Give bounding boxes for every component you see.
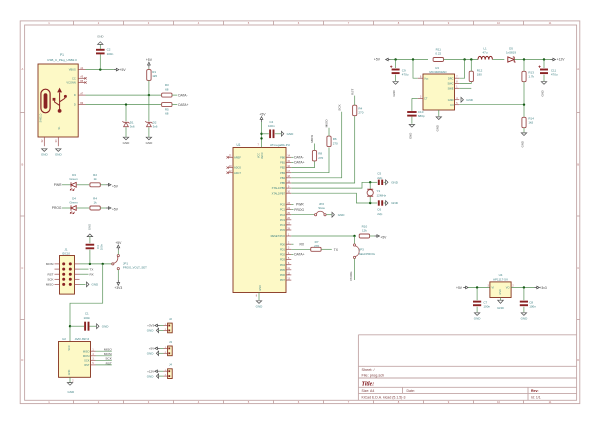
svg-text:VI: VI	[492, 286, 495, 290]
svg-text:GND: GND	[259, 285, 262, 291]
svg-text:100n: 100n	[99, 243, 103, 250]
svg-text:+5V: +5V	[112, 208, 119, 212]
svg-text:+3V3: +3V3	[147, 324, 154, 328]
svg-text:+12V: +12V	[147, 369, 154, 373]
svg-text:RESET/PC6: RESET/PC6	[271, 234, 286, 238]
svg-text:RX: RX	[300, 242, 305, 246]
svg-text:GND: GND	[499, 289, 502, 295]
svg-text:C: C	[577, 266, 579, 270]
svg-text:DATA-: DATA-	[178, 93, 187, 97]
svg-text:PB0: PB0	[280, 155, 285, 159]
svg-text:PD7: PD7	[280, 278, 286, 282]
svg-text:ADC7: ADC7	[234, 171, 241, 175]
svg-text:B: B	[577, 162, 579, 166]
svg-text:Id: 1/1: Id: 1/1	[531, 395, 541, 399]
svg-text:GND: GND	[123, 141, 131, 145]
svg-text:USB_C_Plug_USB2.0: USB_C_Plug_USB2.0	[47, 58, 77, 62]
svg-text:KiCad E.D.A. kicad (5.1.5)-3: KiCad E.D.A. kicad (5.1.5)-3	[362, 395, 406, 399]
svg-text:ADC6: ADC6	[234, 166, 241, 170]
svg-text:3v6: 3v6	[153, 125, 158, 129]
svg-text:VCONN: VCONN	[66, 81, 75, 85]
svg-text:J3: J3	[169, 340, 172, 344]
svg-text:11: 11	[549, 21, 552, 25]
svg-text:D: D	[74, 93, 76, 97]
svg-text:100n: 100n	[268, 124, 275, 128]
svg-text:GND: GND	[147, 374, 155, 378]
svg-text:100n: 100n	[483, 305, 490, 309]
svg-text:Green: Green	[69, 200, 78, 204]
svg-text:PB1: PB1	[280, 161, 285, 165]
svg-text:PC0: PC0	[280, 203, 286, 207]
svg-text:VO: VO	[506, 286, 510, 290]
svg-text:PD5: PD5	[280, 268, 286, 272]
svg-text:GND: GND	[392, 90, 396, 96]
svg-text:SCK: SCK	[47, 278, 53, 282]
svg-text:12k: 12k	[362, 229, 367, 233]
svg-text:AP1117-5V: AP1117-5V	[493, 277, 508, 281]
svg-text:MISO: MISO	[83, 349, 90, 353]
svg-text:B: B	[22, 162, 24, 166]
svg-text:ATmega8A-PU: ATmega8A-PU	[270, 143, 290, 147]
svg-text:PD1: PD1	[280, 247, 286, 251]
svg-text:MOSI: MOSI	[310, 135, 314, 143]
svg-text:22p: 22p	[377, 176, 382, 180]
svg-text:PC4: PC4	[280, 223, 286, 227]
svg-text:GND: GND	[541, 90, 545, 96]
svg-text:680p: 680p	[418, 114, 425, 118]
svg-text:1n5819: 1n5819	[506, 50, 516, 54]
svg-text:PWR: PWR	[296, 203, 304, 207]
svg-text:GND: GND	[391, 201, 399, 205]
svg-text:1.7k: 1.7k	[528, 75, 534, 79]
svg-text:PC1: PC1	[280, 208, 286, 212]
svg-text:XTAL2/PB7: XTAL2/PB7	[272, 191, 286, 195]
svg-text:U1: U1	[237, 143, 241, 147]
svg-text:C: C	[21, 266, 23, 270]
svg-text:SHIELD: SHIELD	[40, 113, 43, 122]
svg-text:+5V: +5V	[115, 241, 122, 245]
svg-text:D: D	[74, 103, 76, 107]
svg-text:Date:: Date:	[407, 389, 415, 393]
svg-text:GND: GND	[146, 141, 154, 145]
svg-text:A: A	[22, 67, 24, 71]
svg-text:DATA+: DATA+	[294, 161, 304, 165]
svg-text:GND: GND	[474, 317, 482, 321]
svg-text:100n: 100n	[529, 305, 536, 309]
svg-text:PD3: PD3	[280, 258, 286, 262]
svg-text:Title:: Title:	[362, 381, 375, 387]
svg-text:GND: GND	[92, 283, 100, 287]
svg-text:PWR: PWR	[54, 183, 62, 187]
svg-text:12MHz: 12MHz	[377, 193, 387, 197]
svg-text:+5V: +5V	[120, 68, 127, 72]
svg-text:Vcc: Vcc	[424, 76, 429, 80]
svg-text:IDC10: IDC10	[62, 251, 70, 255]
svg-text:MOSI: MOSI	[46, 262, 54, 266]
svg-text:DATA+: DATA+	[178, 103, 188, 107]
svg-text:RST: RST	[106, 361, 112, 365]
svg-text:SWE: SWE	[448, 86, 454, 90]
svg-text:D: D	[21, 358, 23, 362]
svg-text:RST: RST	[84, 363, 90, 367]
svg-text:+5V: +5V	[259, 113, 266, 117]
svg-text:1k: 1k	[94, 177, 98, 181]
svg-text:PB2: PB2	[280, 166, 285, 170]
svg-text:22p: 22p	[377, 212, 382, 216]
svg-text:+5V: +5V	[456, 286, 463, 290]
svg-text:SCK: SCK	[105, 357, 112, 361]
svg-text:+3V3: +3V3	[114, 286, 122, 290]
svg-text:GND: GND	[68, 370, 71, 376]
svg-text:GND: GND	[67, 390, 75, 394]
svg-text:GND: GND	[287, 132, 295, 136]
svg-text:PC3: PC3	[280, 218, 286, 222]
svg-text:MOSI: MOSI	[83, 354, 90, 358]
svg-text:PB3: PB3	[280, 171, 285, 175]
svg-text:+5V: +5V	[112, 184, 119, 188]
svg-text:GND: GND	[97, 35, 103, 39]
svg-text:VCC: VCC	[68, 345, 71, 350]
svg-text:AREF: AREF	[234, 155, 241, 159]
svg-text:PROG: PROG	[294, 208, 304, 212]
svg-text:100n: 100n	[83, 316, 90, 320]
svg-text:470u: 470u	[402, 73, 409, 77]
svg-text:Rev:: Rev:	[531, 389, 539, 393]
svg-text:MOSI: MOSI	[104, 352, 112, 356]
svg-text:270: 270	[314, 244, 319, 248]
svg-text:PD4: PD4	[280, 263, 286, 267]
svg-text:GND: GND	[497, 306, 505, 310]
svg-text:470u: 470u	[551, 73, 558, 77]
svg-text:+12V: +12V	[557, 58, 566, 62]
svg-text:270: 270	[333, 141, 338, 145]
svg-text:10: 10	[497, 21, 500, 25]
svg-text:GND: GND	[147, 329, 155, 333]
svg-text:AVCC: AVCC	[261, 152, 264, 159]
svg-text:Green: Green	[69, 177, 78, 181]
svg-text:PD0: PD0	[280, 242, 286, 246]
svg-text:1k: 1k	[94, 200, 98, 204]
svg-text:Slow: Slow	[318, 206, 325, 210]
svg-text:DATA+: DATA+	[294, 253, 304, 257]
svg-text:GND: GND	[256, 305, 264, 309]
svg-text:PB5: PB5	[280, 181, 285, 185]
svg-text:DRC: DRC	[448, 76, 454, 80]
svg-text:MISO: MISO	[325, 119, 329, 128]
svg-text:A: A	[577, 67, 579, 71]
svg-text:RST: RST	[48, 272, 54, 276]
svg-text:MISO: MISO	[46, 283, 54, 287]
svg-text:MC34063AD: MC34063AD	[429, 70, 447, 74]
svg-text:GND: GND	[409, 133, 413, 139]
svg-text:11: 11	[549, 400, 552, 404]
svg-text:68: 68	[165, 112, 169, 116]
svg-text:3v6: 3v6	[130, 125, 135, 129]
svg-text:10: 10	[497, 400, 500, 404]
svg-text:+3v3: +3v3	[540, 286, 547, 290]
svg-text:TX: TX	[90, 267, 94, 271]
svg-text:GND: GND	[55, 152, 63, 156]
svg-text:VCC: VCC	[258, 153, 261, 158]
svg-text:J2: J2	[169, 317, 172, 321]
svg-text:GND: GND	[521, 141, 525, 147]
svg-text:MISO: MISO	[104, 348, 113, 352]
svg-text:RST: RST	[350, 89, 354, 95]
svg-text:GND: GND	[391, 181, 399, 185]
svg-text:100n: 100n	[107, 52, 114, 56]
svg-text:PD2: PD2	[280, 253, 286, 257]
svg-text:PC2: PC2	[280, 213, 286, 217]
svg-text:VBUS: VBUS	[69, 68, 76, 72]
svg-text:RX: RX	[90, 272, 94, 276]
svg-text:File: prog.sch: File: prog.sch	[362, 373, 385, 377]
svg-text:Size: A4: Size: A4	[362, 389, 375, 393]
svg-text:+5V: +5V	[380, 236, 387, 240]
svg-text:P1: P1	[60, 53, 64, 57]
svg-text:U2: U2	[62, 337, 66, 341]
svg-text:GND: GND	[147, 352, 155, 356]
svg-text:CII: CII	[450, 103, 454, 107]
svg-text:1k5: 1k5	[152, 74, 157, 78]
svg-text:J4: J4	[169, 363, 172, 367]
svg-text:270: 270	[358, 111, 363, 115]
svg-text:1k5: 1k5	[528, 121, 533, 125]
svg-text:68: 68	[165, 87, 169, 91]
svg-text:270: 270	[318, 156, 323, 160]
svg-text:+5V: +5V	[374, 58, 381, 62]
svg-text:GND: GND	[466, 98, 474, 102]
svg-text:GND: GND	[435, 125, 439, 131]
svg-text:0.22: 0.22	[435, 52, 441, 56]
svg-text:SELFPROG: SELFPROG	[359, 252, 376, 256]
svg-text:AVR-ISP-6: AVR-ISP-6	[75, 337, 90, 341]
svg-text:SCK: SCK	[337, 103, 341, 110]
svg-text:SCK: SCK	[84, 358, 90, 362]
svg-text:GND: GND	[102, 324, 110, 328]
svg-text:+5V: +5V	[146, 58, 153, 62]
svg-text:DATA-: DATA-	[294, 156, 303, 160]
svg-text:PC5: PC5	[280, 228, 286, 232]
svg-text:PROG: PROG	[349, 271, 353, 281]
svg-text:180: 180	[477, 73, 482, 77]
svg-text:Sheet: /: Sheet: /	[362, 368, 376, 372]
svg-text:XTAL1/PB6: XTAL1/PB6	[272, 186, 286, 190]
svg-text:PD6: PD6	[280, 273, 286, 277]
svg-text:PROG: PROG	[52, 206, 62, 210]
svg-text:CT: CT	[424, 97, 428, 101]
svg-text:GND: GND	[521, 317, 529, 321]
svg-text:47u: 47u	[482, 50, 487, 54]
svg-text:GND: GND	[338, 213, 346, 217]
svg-text:GND: GND	[448, 98, 454, 102]
svg-text:GND: GND	[87, 224, 91, 230]
svg-text:GND: GND	[41, 152, 49, 156]
svg-text:PB4: PB4	[280, 176, 285, 180]
svg-text:D: D	[577, 358, 579, 362]
svg-text:SWC: SWC	[447, 82, 453, 86]
svg-text:+5V: +5V	[149, 347, 154, 351]
svg-text:PROG_VOLT_SET: PROG_VOLT_SET	[123, 266, 147, 270]
svg-text:CC: CC	[72, 76, 76, 80]
